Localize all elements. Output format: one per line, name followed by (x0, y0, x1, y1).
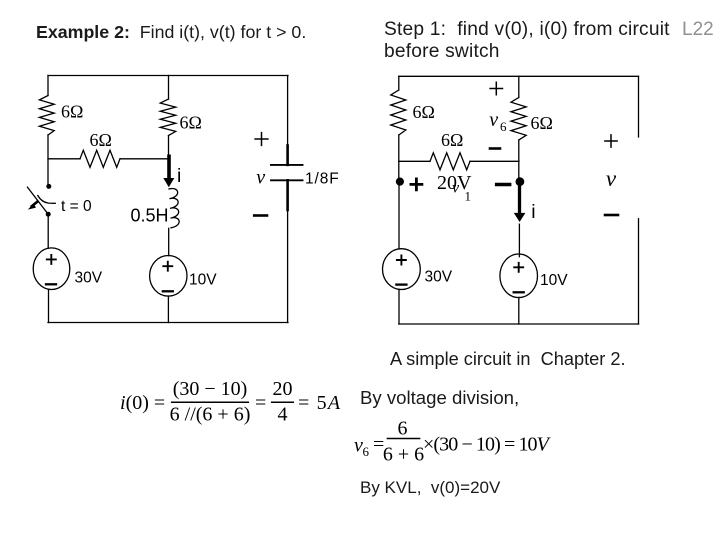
node A dot (left, right circuit) (396, 178, 404, 186)
wire: V1 to bottom rail (48, 289, 50, 322)
wire: top rail right circuit (399, 75, 639, 77)
wire: right branch upper (to capacitor) (287, 76, 289, 147)
wire: arrow to source V4 (518, 224, 520, 257)
svg-text:=: = (255, 392, 266, 414)
source V1 minus (46, 283, 56, 285)
title left: Example 2 (36, 22, 306, 43)
switch motion arrow (32, 202, 38, 207)
svg-text:20: 20 (273, 378, 293, 400)
node A plus sign (20V annotation) (411, 179, 422, 190)
open terminals minus sign (605, 214, 618, 217)
node B dot (right, right circuit) (516, 177, 525, 186)
wire: horizontal resistor branch left lead (48, 158, 80, 160)
svg-text:i: i (531, 201, 535, 223)
svg-text:10V: 10V (540, 272, 568, 289)
v6 plus sign (490, 82, 502, 94)
svg-text:6Ω: 6Ω (441, 130, 463, 150)
svg-text:6 + 6: 6 + 6 (383, 444, 424, 466)
source V3 plus (397, 256, 406, 265)
svg-text:6: 6 (398, 418, 408, 440)
capacitor C 1/8F top plate (271, 164, 303, 166)
svg-text:i(0) =: i(0) = (120, 392, 165, 414)
switch blade (open, t=0) (27, 187, 48, 214)
svg-text:6Ω: 6Ω (61, 102, 83, 122)
wire: right branch upper open terminal (638, 76, 640, 137)
source V2 10V circle (150, 255, 187, 296)
capacitor minus sign (254, 214, 267, 217)
wire: bottom rail left circuit (48, 322, 288, 324)
svg-text:4: 4 (278, 404, 288, 426)
eq1 fraction bar (172, 401, 249, 403)
capacitor C 1/8F bottom plate (271, 179, 303, 181)
eq2 fraction bar (387, 438, 419, 440)
current arrow i (left circuit) (167, 156, 171, 178)
wire: horizontal resistor left lead (right circuit) (399, 160, 430, 162)
wire: right-left branch top stub (398, 76, 400, 90)
capacitor plus sign (255, 133, 268, 146)
labels left circuit (61, 102, 553, 151)
svg-text:i: i (177, 165, 181, 187)
wire: horizontal resistor right lead (120, 158, 169, 160)
source V4 plus (514, 263, 523, 272)
source V4 10V circle (500, 254, 538, 298)
wire: left branch to switch (47, 135, 49, 184)
resistor 6ohm right-circuit left vertical (391, 90, 406, 135)
svg-text:t = 0: t = 0 (61, 198, 92, 215)
svg-text:6: 6 (500, 119, 507, 134)
svg-text:v: v (256, 167, 265, 189)
wire: capacitor to bottom rail (287, 210, 289, 323)
svg-text:0.5H: 0.5H (131, 206, 169, 226)
svg-text:v: v (489, 109, 498, 131)
wire: left branch top stub (47, 76, 49, 96)
eq1 fraction bar 2 (272, 401, 294, 403)
svg-text:6Ω: 6Ω (531, 113, 553, 133)
svg-text:v: v (606, 166, 617, 191)
source V3 30V circle (383, 249, 421, 290)
source V4 minus (514, 291, 524, 293)
svg-text:30V: 30V (75, 270, 103, 287)
capacitor top lead thick (286, 146, 289, 165)
svg-text:20V: 20V (437, 172, 472, 194)
svg-text:= 5A: = 5A (298, 392, 341, 414)
resistor 6ohm horizontal (right circuit) (430, 153, 470, 170)
wire: right branch lower open terminal (638, 219, 640, 324)
wire: V2 to bottom rail (167, 296, 169, 323)
node: switch bottom terminal dot (46, 212, 51, 217)
wire: bottom rail right circuit (399, 323, 639, 325)
wire: switch to source V1 (47, 214, 49, 248)
wire: mid branch top stub (168, 76, 170, 100)
svg-text:6Ω: 6Ω (90, 130, 112, 150)
source V3 minus (396, 283, 406, 285)
v6 minus sign (490, 147, 500, 150)
wire: horizontal resistor right lead (right circuit) (470, 160, 519, 162)
source V1 30V circle (33, 248, 70, 290)
wire: V3 to bottom rail (398, 289, 400, 324)
resistor 6ohm horizontal (80, 150, 120, 167)
resistor 6ohm left vertical (39, 96, 54, 136)
svg-text:×(30 − 10) = 10V: ×(30 − 10) = 10V (423, 434, 552, 456)
wire: V4 to bottom rail (518, 297, 520, 324)
svg-text:1/8F: 1/8F (305, 171, 340, 188)
resistor 6ohm right-circuit mid vertical (511, 98, 526, 141)
svg-text:6Ω: 6Ω (180, 113, 202, 133)
node: switch top terminal dot (46, 184, 51, 189)
caption: A simple circuit in Chapter 2. (390, 349, 626, 370)
inductor 0.5H (169, 189, 179, 228)
wire: top rail left circuit (48, 75, 288, 77)
title right: Step 1 (384, 19, 670, 63)
svg-text:10V: 10V (189, 272, 217, 289)
open terminals plus sign (605, 135, 617, 147)
svg-text:30V: 30V (425, 269, 453, 286)
caption: By voltage division, (360, 387, 519, 409)
svg-text:6 //(6 + 6): 6 //(6 + 6) (170, 404, 251, 426)
source V1 plus (47, 255, 56, 264)
switch motion arc (38, 196, 55, 204)
wire: node A to source V3 (398, 182, 400, 249)
caption: By KVL (360, 478, 500, 498)
resistor 6ohm mid vertical (160, 99, 175, 136)
slide number L22 (682, 19, 714, 41)
node B minus sign (20V annotation) (497, 183, 510, 187)
capacitor bottom lead thick (286, 180, 289, 210)
wire: right-mid branch top stub (518, 76, 520, 97)
wire: resistor to node A (398, 135, 400, 181)
wire: mid resistor to node B (518, 140, 520, 181)
wire: inductor to source V2 (168, 228, 170, 255)
svg-text:6: 6 (363, 444, 370, 459)
source V2 minus (163, 290, 173, 292)
current arrow i (right circuit) (518, 186, 521, 214)
source V2 plus (163, 262, 172, 271)
wire: mid resistor to node (168, 136, 170, 158)
svg-text:(30 − 10): (30 − 10) (173, 378, 248, 400)
svg-text:6Ω: 6Ω (413, 102, 435, 122)
